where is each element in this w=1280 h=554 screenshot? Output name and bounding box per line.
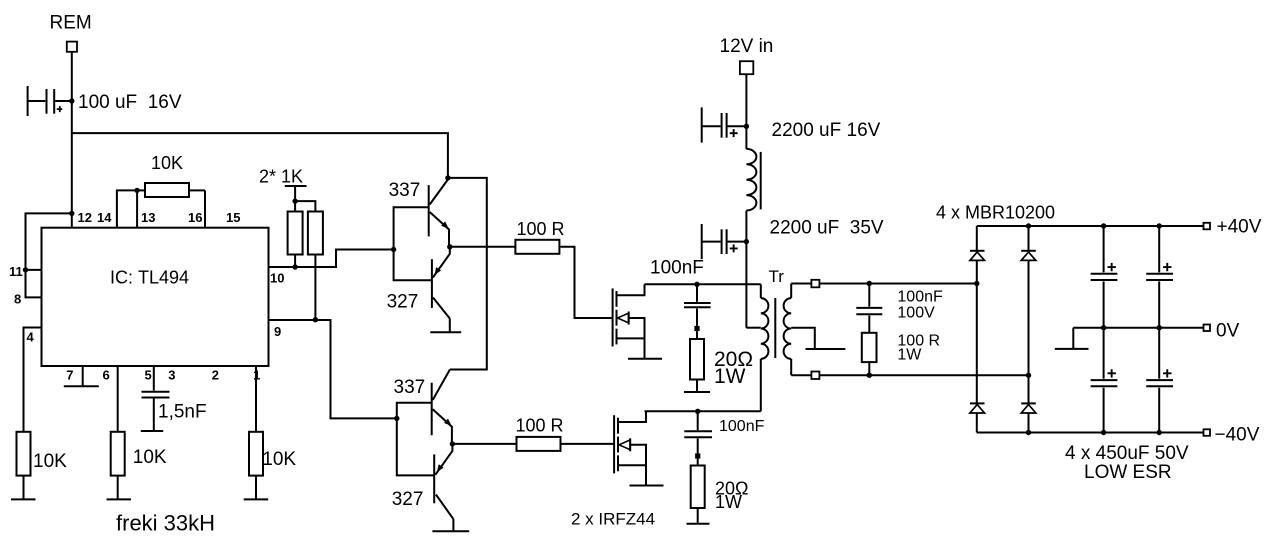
svg-text:100 R: 100 R xyxy=(516,415,564,435)
label R7 100 R xyxy=(517,219,565,239)
svg-text:12V in: 12V in xyxy=(720,36,774,57)
wire secondary bottom rail xyxy=(791,374,1028,376)
svg-text:337: 337 xyxy=(389,180,421,201)
label C7 100V xyxy=(897,305,935,322)
pin number 15 xyxy=(226,210,240,225)
ground Q4 collector xyxy=(432,530,469,532)
svg-text:10K: 10K xyxy=(133,447,167,468)
wire diode column 2 xyxy=(1028,226,1030,433)
svg-text:3: 3 xyxy=(168,367,175,382)
diode D1 MBR10200 xyxy=(970,251,985,261)
label Tr transformer xyxy=(769,267,785,286)
wire R2 lower lead xyxy=(23,476,25,500)
junction dot pair2 base xyxy=(394,416,399,421)
wire secondary center tap xyxy=(791,328,815,349)
junction dot 1K tops xyxy=(292,198,297,203)
op-amp U1 IC TL494 body xyxy=(42,228,269,366)
pin number 3 xyxy=(168,367,175,382)
svg-text:100nF: 100nF xyxy=(897,289,943,306)
svg-text:2200 uF 16V: 2200 uF 16V xyxy=(772,120,881,141)
ground R3 xyxy=(107,498,132,500)
svg-text:1W: 1W xyxy=(715,492,742,512)
wire pair2 output xyxy=(452,443,516,445)
junction dot snubber top xyxy=(867,281,872,286)
capacitor C10 450uF lower left xyxy=(1091,328,1118,433)
label C6 100nF xyxy=(719,418,765,435)
svg-text:9: 9 xyxy=(274,324,281,339)
capacitor C2 1,5nF xyxy=(141,392,170,431)
svg-text:8: 8 xyxy=(14,292,21,307)
pin number 11 xyxy=(9,264,23,279)
junction dot C6 top xyxy=(695,409,700,414)
svg-text:Tr: Tr xyxy=(769,267,785,286)
junction dot D1 secondary top xyxy=(974,281,979,286)
power bar 2x1K supply xyxy=(285,186,307,212)
resistor R8 100R xyxy=(517,437,561,451)
junction dot pair1 base xyxy=(391,247,396,252)
junction dot pin12 wire xyxy=(69,211,74,216)
capacitor C9 450uF upper right xyxy=(1146,226,1173,328)
label C7 100nF xyxy=(897,289,943,306)
node secondary top terminal square xyxy=(811,280,819,288)
svg-text:IC: TL494: IC: TL494 xyxy=(110,268,189,288)
node 0V terminal xyxy=(1204,325,1211,332)
ground pin 7 xyxy=(64,366,99,386)
resistor R10 20 ohm 1W xyxy=(691,459,705,524)
capacitor C5 100nF xyxy=(684,284,711,326)
svg-text:10K: 10K xyxy=(262,449,296,470)
wire top rail to driver collectors xyxy=(72,133,448,178)
label REM xyxy=(50,13,92,34)
wire R8 to Q6 gate xyxy=(561,443,615,445)
label R4 10K xyxy=(262,449,296,470)
pin number 16 xyxy=(188,210,202,225)
resistor R3 10K pin6 xyxy=(111,432,125,476)
svg-text:7: 7 xyxy=(66,367,73,382)
wire pin 4 xyxy=(24,328,42,432)
svg-text:1W: 1W xyxy=(897,347,922,364)
label C4 2200 uF 35V xyxy=(770,218,884,239)
svg-text:REM: REM xyxy=(50,13,92,34)
junction dot C10 bottom xyxy=(1101,430,1106,435)
svg-text:4: 4 xyxy=(27,329,35,344)
svg-text:10K: 10K xyxy=(33,451,67,472)
pin number 12 xyxy=(78,210,92,225)
wire secondary top rail xyxy=(791,283,977,285)
wire pin 14 to pin 13 tie xyxy=(117,190,137,228)
wire collector rail pair1 to pair2 xyxy=(448,178,487,370)
junction dot C3 xyxy=(744,124,749,129)
svg-text:4 x MBR10200: 4 x MBR10200 xyxy=(936,203,1055,223)
ground Q2 collector xyxy=(430,331,461,333)
pin number 1 xyxy=(253,367,260,382)
resistor R9 20 ohm 1W xyxy=(690,331,704,392)
label C5 100nF xyxy=(650,258,704,279)
svg-text:2* 1K: 2* 1K xyxy=(259,167,303,187)
svg-text:5: 5 xyxy=(145,367,152,382)
label -40V xyxy=(1215,425,1260,446)
junction dot C9 0V xyxy=(1157,325,1162,330)
transistor Q2 BD327 label xyxy=(387,292,419,313)
svg-text:2 x IRFZ44: 2 x IRFZ44 xyxy=(571,510,655,529)
diode D4 MBR10200 xyxy=(1021,403,1036,413)
junction dot C8 0V xyxy=(1101,325,1106,330)
junction dot pin11 xyxy=(23,267,28,272)
resistor R5 1K left xyxy=(288,212,303,255)
pin number 13 xyxy=(141,210,155,225)
node 12V input terminal xyxy=(740,61,753,74)
label R8 100 R xyxy=(516,415,564,435)
svg-text:2200 uF 35V: 2200 uF 35V xyxy=(770,218,884,239)
wire Q5 drain rail xyxy=(645,283,761,285)
svg-text:−40V: −40V xyxy=(1215,425,1260,446)
inductor L1 choke xyxy=(746,149,760,211)
junction square C5/R9 xyxy=(694,326,699,331)
capacitor C4 2200uF 35V xyxy=(702,224,747,259)
svg-text:13: 13 xyxy=(141,210,155,225)
junction square C6/R10 xyxy=(695,453,700,458)
junction dot C11 bottom xyxy=(1157,430,1162,435)
wire +40V top rail xyxy=(977,225,1204,227)
pin number 8 xyxy=(14,292,21,307)
wire pair1 output xyxy=(450,246,516,248)
label 0V xyxy=(1216,321,1240,342)
wire pin 9 to driver pair 2 base xyxy=(269,320,397,418)
ground R2 xyxy=(11,498,36,500)
svg-text:12: 12 xyxy=(78,210,92,225)
label +40V xyxy=(1217,217,1262,238)
wire L1 to C4 xyxy=(745,211,747,328)
resistor R1 10K feedback xyxy=(137,183,205,197)
resistor R6 1K right xyxy=(308,212,323,255)
capacitor C7 100nF 100V snubber xyxy=(856,284,882,333)
wire R7 to Q5 gate xyxy=(559,247,612,318)
label freki 33kH xyxy=(116,511,215,536)
svg-text:327: 327 xyxy=(392,489,424,510)
wire pin 5 xyxy=(153,366,155,391)
svg-text:1,5nF: 1,5nF xyxy=(158,402,207,423)
wire R4 lower lead xyxy=(255,476,257,500)
pin number 10 xyxy=(270,271,284,286)
node +40V terminal xyxy=(1204,223,1211,230)
svg-text:2: 2 xyxy=(212,367,219,382)
svg-text:14: 14 xyxy=(97,210,112,225)
pin number 2 xyxy=(212,367,219,382)
svg-text:freki 33kH: freki 33kH xyxy=(116,511,215,536)
wire 1K top tie xyxy=(295,201,315,211)
transformer T1 core xyxy=(774,298,776,358)
wire pin 6 xyxy=(117,366,119,432)
node secondary bottom terminal square xyxy=(811,372,819,380)
transistor Q1 BD337 xyxy=(429,180,449,247)
pin number 7 xyxy=(66,367,73,382)
capacitor C6 100nF xyxy=(684,411,712,453)
junction dot C4 xyxy=(744,239,749,244)
label 2 x IRFZ44 xyxy=(571,510,655,529)
svg-text:16: 16 xyxy=(188,210,202,225)
transistor Q3 BD337 xyxy=(432,370,452,444)
node -40V terminal xyxy=(1204,429,1211,436)
svg-text:100 R: 100 R xyxy=(517,219,565,239)
ground R10 xyxy=(687,523,710,525)
svg-text:10: 10 xyxy=(270,271,284,286)
label R11 100 R xyxy=(897,333,940,350)
transistor Q3 BD337 label xyxy=(394,377,426,398)
ground 0V xyxy=(1055,328,1089,349)
resistor R11 100R 1W snubber xyxy=(862,333,877,375)
junction dot R6 pin9 xyxy=(313,317,318,322)
label R3 10K xyxy=(133,447,167,468)
label C3 2200 uF 16V xyxy=(772,120,881,141)
ground R9 xyxy=(684,391,710,393)
wire pins 11/8 to REM node xyxy=(26,213,72,297)
svg-text:LOW ESR: LOW ESR xyxy=(1084,462,1172,483)
wire R5 bottom to pin10 line xyxy=(294,255,296,268)
transformer T1 secondary winding xyxy=(784,284,792,376)
label IC: TL494 xyxy=(110,268,189,288)
wire R3 lower lead xyxy=(117,476,119,500)
capacitor C1 100uF 16V xyxy=(28,86,72,116)
capacitor C11 450uF lower right xyxy=(1146,328,1173,433)
label 12V in xyxy=(720,36,774,57)
pin number 5 xyxy=(145,367,152,382)
node REM terminal xyxy=(67,42,77,52)
label LOW ESR xyxy=(1084,462,1172,483)
junction dot D4 secondary bottom xyxy=(1026,373,1031,378)
transformer T1 primary winding xyxy=(761,284,769,411)
junction dot C5 top xyxy=(694,282,699,287)
svg-text:100nF: 100nF xyxy=(719,418,765,435)
ground secondary center tap xyxy=(806,348,846,350)
junction dot pin13 resistor xyxy=(134,188,139,193)
wire R6 bottom to pin9 line xyxy=(314,255,316,320)
svg-text:100nF: 100nF xyxy=(650,258,704,279)
label R9 20 ohm xyxy=(714,348,753,371)
svg-text:10K: 10K xyxy=(151,153,183,173)
ground R4 xyxy=(244,498,269,500)
svg-text:15: 15 xyxy=(226,210,240,225)
label C2 1,5nF xyxy=(158,402,207,423)
label C1 value 100 uF 16V xyxy=(78,92,182,113)
transistor Q5 IRFZ44 xyxy=(613,284,662,358)
junction dot pair1 emitters xyxy=(447,244,452,249)
label R2 10K xyxy=(33,451,67,472)
resistor R7 100R xyxy=(515,240,559,254)
label 2* 1K xyxy=(259,167,303,187)
pin number 6 xyxy=(103,367,110,382)
pin number 9 xyxy=(274,324,281,339)
junction dot C1/REM xyxy=(69,98,74,103)
wire driver pair2 base tie xyxy=(397,403,434,476)
svg-text:4 x 450uF 50V: 4 x 450uF 50V xyxy=(1065,443,1189,464)
label R10 20 ohm xyxy=(715,479,748,499)
wire pin 10 to driver pair 1 base xyxy=(269,250,394,268)
label 4 x MBR10200 xyxy=(936,203,1055,223)
resistor R2 10K pin4 xyxy=(17,432,31,476)
transistor Q1 BD337 label xyxy=(389,180,421,201)
junction dot R5 pin10 xyxy=(292,264,297,269)
label R10 1W xyxy=(715,492,742,512)
svg-text:327: 327 xyxy=(387,292,419,313)
svg-text:6: 6 xyxy=(103,367,110,382)
svg-text:0V: 0V xyxy=(1216,321,1240,342)
resistor R4 10K pin1 xyxy=(249,432,263,476)
junction dot snubber bottom xyxy=(867,373,872,378)
diode D3 MBR10200 xyxy=(970,403,985,413)
label R1 10K xyxy=(151,153,183,173)
wire pin 16 xyxy=(204,190,206,228)
wire 12V feed upper xyxy=(745,74,747,149)
svg-text:100 uF 16V: 100 uF 16V xyxy=(78,92,182,113)
svg-text:+40V: +40V xyxy=(1217,217,1262,238)
svg-text:100V: 100V xyxy=(897,305,935,322)
svg-text:1W: 1W xyxy=(714,365,746,388)
junction dot C9 top xyxy=(1157,223,1162,228)
label R11 1W xyxy=(897,347,922,364)
wire diode column 1 xyxy=(976,226,978,433)
junction dot D2 top rail xyxy=(1026,223,1031,228)
wire primary center tap xyxy=(746,327,760,329)
label 4 x 450uF 50V xyxy=(1065,443,1189,464)
svg-text:11: 11 xyxy=(9,264,23,279)
pin number 4 xyxy=(27,329,35,344)
junction dot C8 top xyxy=(1101,223,1106,228)
wire Q6 drain rail xyxy=(645,410,761,412)
junction dot pair2 emitters xyxy=(450,441,455,446)
transistor Q4 BD327 xyxy=(434,444,453,531)
wire -40V bottom rail xyxy=(977,432,1204,434)
wire REM vertical xyxy=(71,52,73,229)
transistor Q4 BD327 label xyxy=(392,489,424,510)
capacitor C8 450uF upper left xyxy=(1091,226,1118,328)
wire driver pair1 base tie xyxy=(394,207,432,280)
wire 0V rail xyxy=(1073,327,1203,329)
capacitor C3 2200uF 16V xyxy=(702,107,747,142)
transistor Q2 BD327 xyxy=(432,247,450,332)
transistor Q6 IRFZ44 xyxy=(614,411,663,485)
junction dot Q1 collector rail xyxy=(445,175,450,180)
svg-text:337: 337 xyxy=(394,377,426,398)
label R9 1W xyxy=(714,365,746,388)
junction dot D4 bottom rail xyxy=(1026,430,1031,435)
diode D2 MBR10200 xyxy=(1021,251,1036,261)
wire pin 1 xyxy=(255,366,257,432)
pin number 14 xyxy=(97,210,112,225)
